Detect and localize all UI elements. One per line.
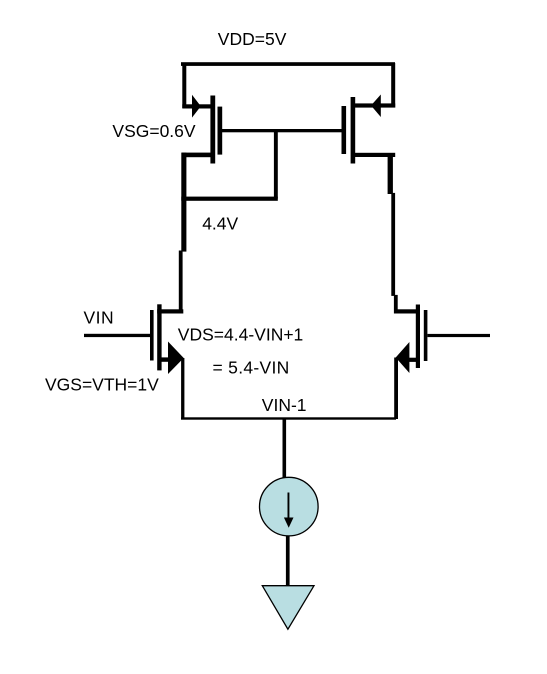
svg-text:VSG=0.6V: VSG=0.6V bbox=[112, 121, 196, 141]
svg-text:4.4V: 4.4V bbox=[202, 214, 238, 234]
svg-text:VDD=5V: VDD=5V bbox=[218, 29, 287, 49]
svg-text:VIN: VIN bbox=[84, 308, 115, 328]
svg-text:VGS=VTH=1V: VGS=VTH=1V bbox=[45, 375, 159, 395]
svg-text:VDS=4.4-VIN+1: VDS=4.4-VIN+1 bbox=[178, 325, 303, 345]
svg-text:= 5.4-VIN: = 5.4-VIN bbox=[213, 357, 290, 377]
svg-text:VIN-1: VIN-1 bbox=[262, 395, 307, 415]
